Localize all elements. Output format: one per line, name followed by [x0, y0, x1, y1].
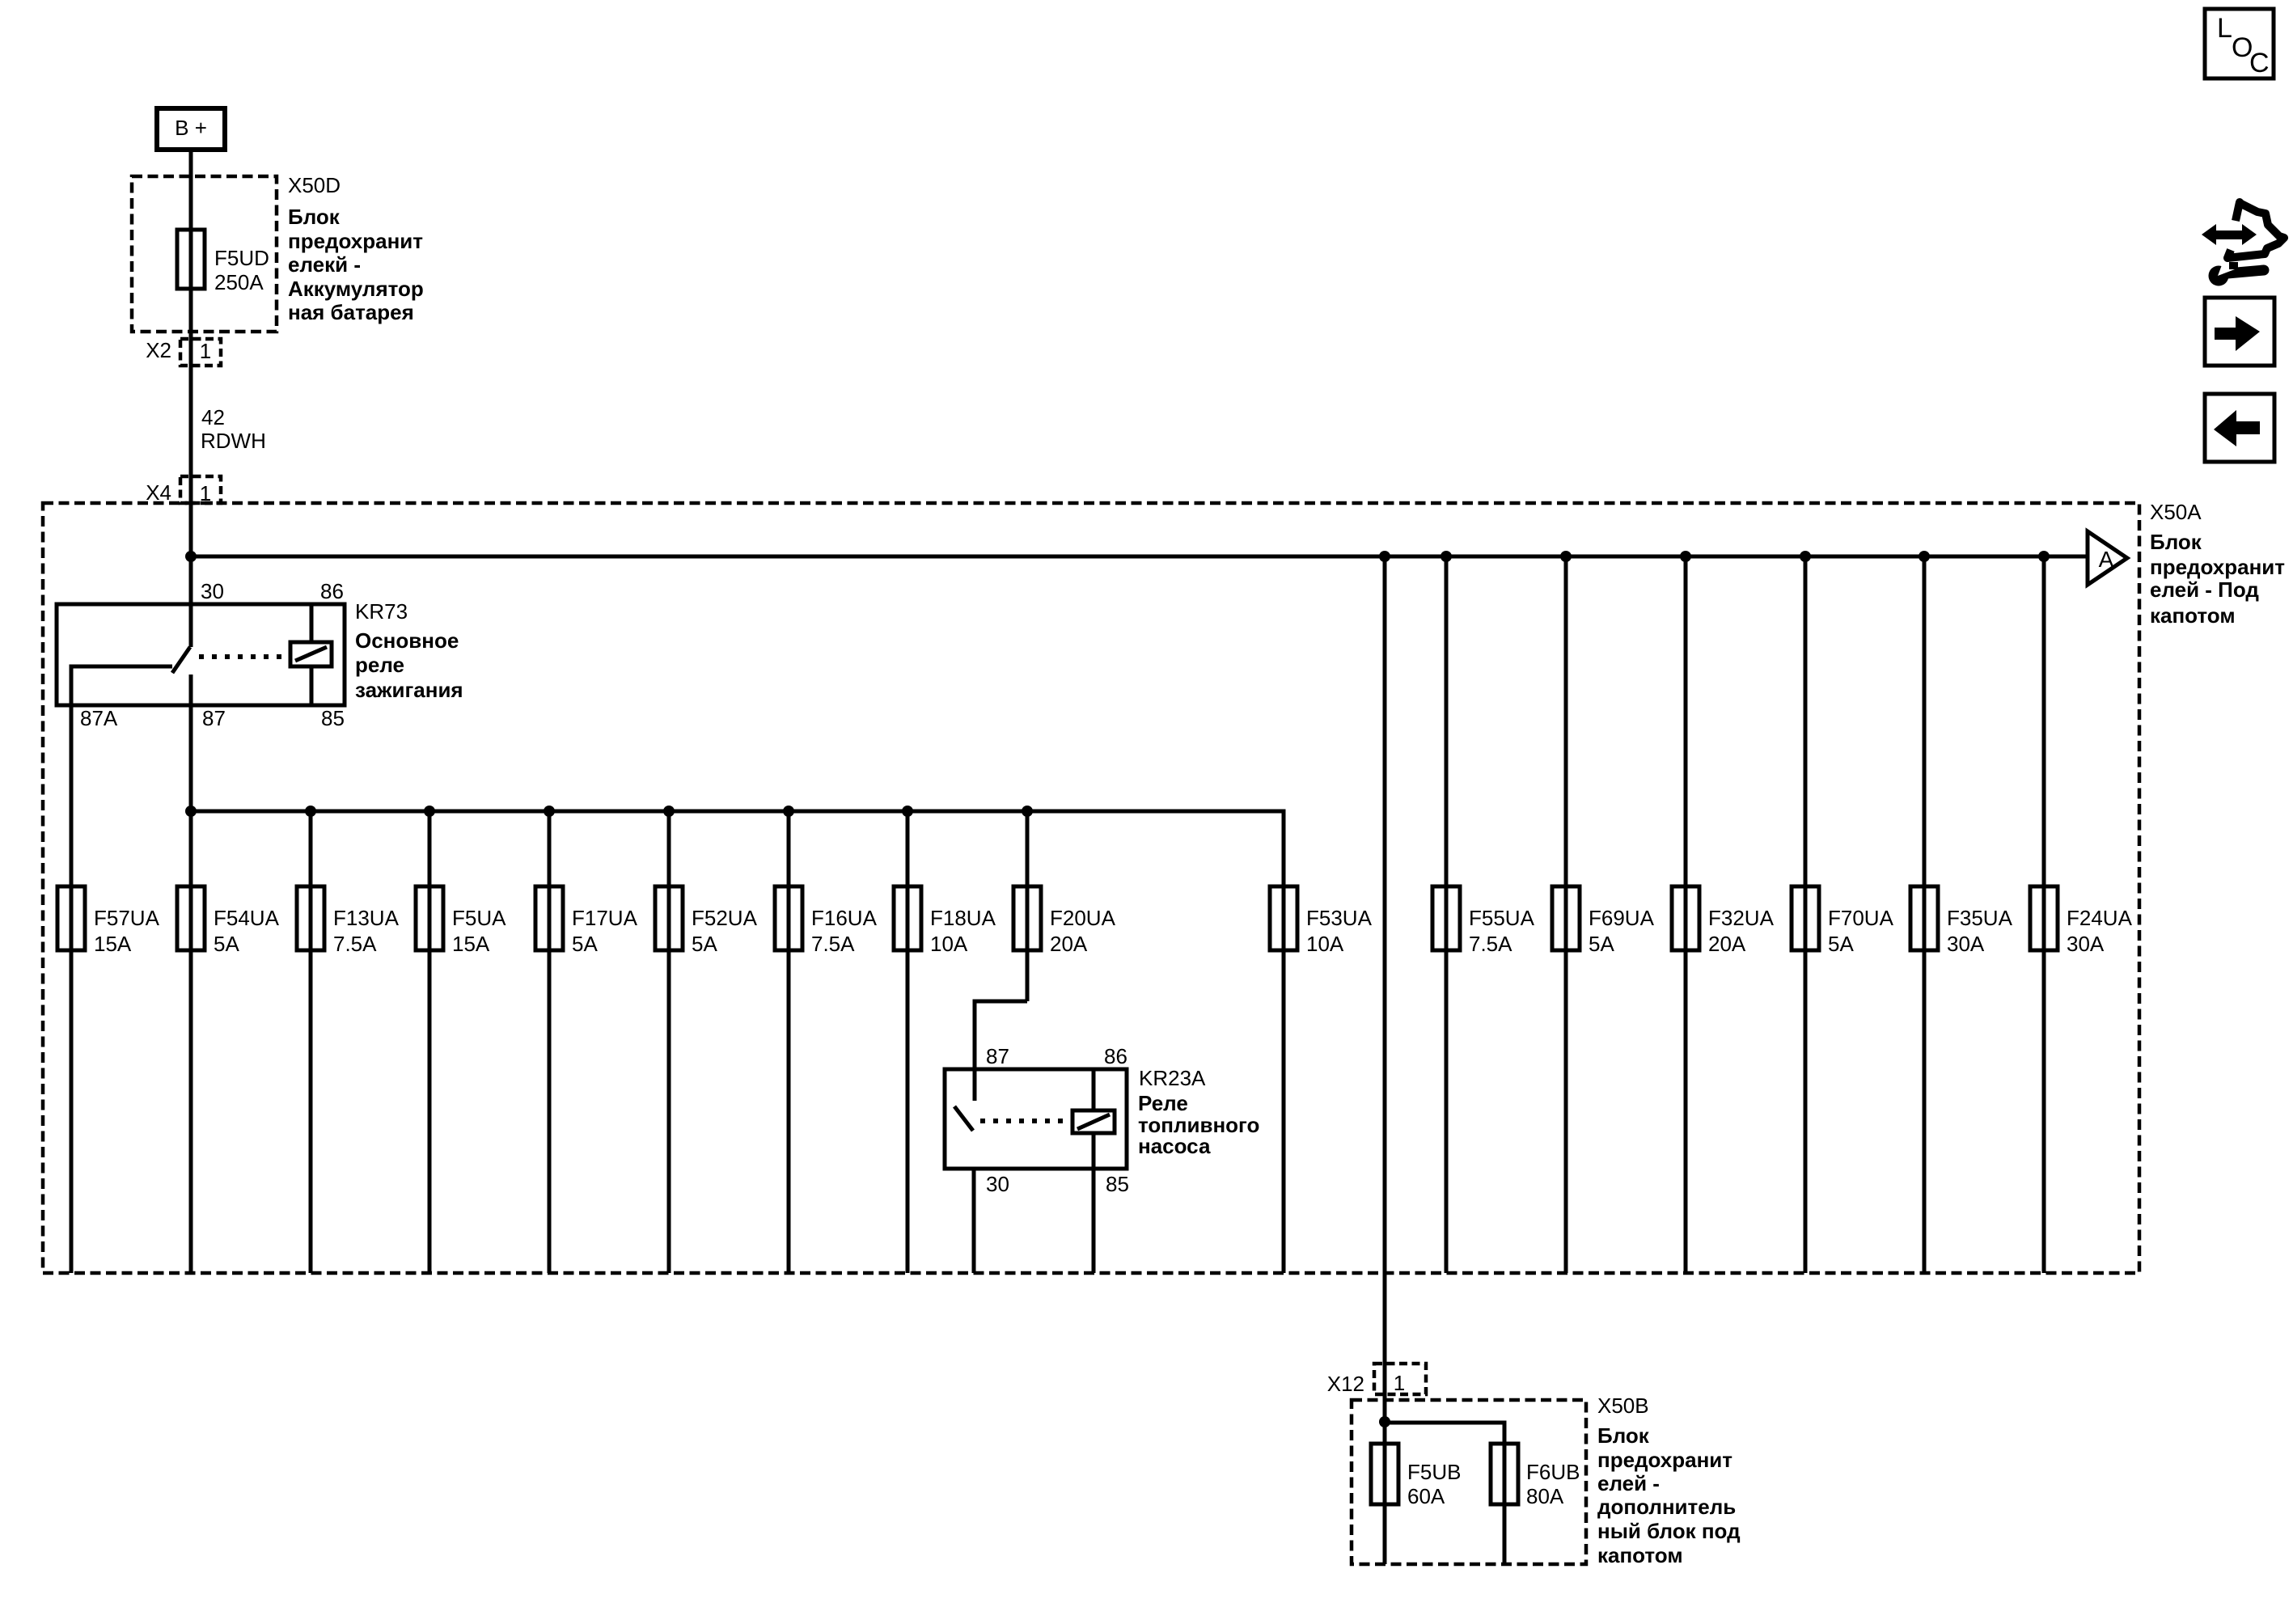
- relay KR73 pin labels bottom: [80, 706, 345, 730]
- svg-text:86: 86: [320, 579, 344, 603]
- svg-text:7.5A: 7.5A: [811, 932, 855, 956]
- svg-text:5A: 5A: [1828, 932, 1854, 956]
- svg-text:42: 42: [201, 405, 225, 429]
- svg-text:30: 30: [986, 1172, 1009, 1196]
- fuse F57UA 15A: [57, 886, 160, 956]
- label X50A description: [2150, 530, 2285, 628]
- node lower bus x=236: [185, 806, 197, 817]
- node main bus x=2232: [1800, 551, 1811, 562]
- svg-text:F32UA: F32UA: [1708, 906, 1775, 930]
- svg-text:B +: B +: [175, 116, 207, 140]
- svg-text:86: 86: [1104, 1044, 1127, 1068]
- svg-text:C: C: [2249, 48, 2270, 78]
- svg-text:ная батарея: ная батарея: [288, 300, 414, 324]
- svg-text:F55UA: F55UA: [1469, 906, 1535, 930]
- svg-text:10A: 10A: [930, 932, 968, 956]
- svg-text:F5UB: F5UB: [1407, 1460, 1461, 1484]
- node lower bus x=679: [544, 806, 555, 817]
- fuse F5UD 250A: [177, 230, 269, 294]
- svg-text:5A: 5A: [692, 932, 717, 956]
- node main bus X12 drop: [1379, 551, 1390, 562]
- nav arrow box back: [2205, 394, 2274, 462]
- svg-text:30A: 30A: [1947, 932, 1985, 956]
- svg-text:реле: реле: [355, 653, 404, 677]
- relay KR23A coil: [1072, 1110, 1115, 1133]
- fuse F69UA 5A: [1552, 556, 1655, 1273]
- relay KR73 87A wire: [71, 666, 172, 1273]
- svg-text:87A: 87A: [80, 706, 118, 730]
- fuse F52UA 5A: [655, 811, 758, 1273]
- svg-text:1: 1: [200, 339, 211, 363]
- fuse F32UA 20A: [1672, 556, 1775, 1273]
- node lower bus x=975: [783, 806, 794, 817]
- node lower bus x=1122: [902, 806, 913, 817]
- wire B+ to relay pin 30: [189, 150, 193, 647]
- fuse F5UA 15A: [416, 811, 506, 1273]
- fuse F55UA 7.5A: [1432, 556, 1535, 1273]
- wire main bus B+: [191, 555, 2088, 559]
- label X50B description: [1597, 1423, 1741, 1567]
- svg-text:F6UB: F6UB: [1526, 1460, 1580, 1484]
- svg-text:дополнитель: дополнитель: [1597, 1495, 1736, 1519]
- relay KR73 pin labels top: [201, 579, 344, 603]
- svg-text:10A: 10A: [1306, 932, 1344, 956]
- svg-text:F5UA: F5UA: [452, 906, 506, 930]
- wire main bus to X12: [1383, 556, 1387, 1564]
- relay KR23A pin 30 wire: [972, 1169, 976, 1273]
- svg-text:80A: 80A: [1526, 1484, 1564, 1508]
- svg-text:60A: 60A: [1407, 1484, 1445, 1508]
- svg-text:F18UA: F18UA: [930, 906, 996, 930]
- fuse F35UA 30A: [1910, 556, 2013, 1273]
- wire lower bus from pin 87: [191, 811, 1284, 1273]
- svg-text:X4: X4: [146, 480, 171, 505]
- connector X12 pin 1: [1327, 1364, 1426, 1396]
- node main bus x=1788: [1441, 551, 1452, 562]
- svg-text:20A: 20A: [1050, 932, 1088, 956]
- svg-text:A: A: [2099, 547, 2114, 572]
- fuse F54UA 5A: [177, 811, 280, 1273]
- svg-text:5A: 5A: [214, 932, 239, 956]
- nav arrow box forward: [2205, 298, 2274, 366]
- relay KR23A box: [945, 1069, 1127, 1169]
- service icon wrench: [2209, 262, 2265, 286]
- relay KR23A coil wires: [1092, 1069, 1096, 1273]
- relay KR73 actuation dotted line: [199, 654, 289, 659]
- node lower bus x=1270: [1022, 806, 1033, 817]
- svg-text:Блок: Блок: [1597, 1423, 1650, 1448]
- node lower bus x=531: [424, 806, 435, 817]
- relay KR73 coil: [290, 642, 332, 666]
- fuse block X50B dashed box: [1352, 1400, 1586, 1564]
- relay KR73 coil wires: [310, 604, 314, 705]
- svg-text:ный блок под: ный блок под: [1597, 1519, 1741, 1543]
- svg-text:KR23A: KR23A: [1139, 1066, 1206, 1090]
- svg-text:87: 87: [202, 706, 226, 730]
- relay KR23A pin labels top: [986, 1044, 1127, 1068]
- fuse F16UA 7.5A: [775, 811, 878, 1273]
- node main bus x=2527: [2038, 551, 2050, 562]
- relay KR23A switch arm: [954, 1106, 973, 1131]
- svg-text:F5UD: F5UD: [214, 246, 269, 270]
- label KR23A description: [1138, 1091, 1259, 1158]
- connector X4 pin 1: [146, 476, 221, 505]
- relay KR73 pin 87 wire: [189, 675, 193, 811]
- svg-text:F24UA: F24UA: [2067, 906, 2133, 930]
- svg-text:30: 30: [201, 579, 224, 603]
- connector X2 pin 1: [146, 338, 221, 366]
- fuse block X50A dashed box: [43, 503, 2139, 1273]
- svg-text:Аккумулятор: Аккумулятор: [288, 277, 424, 301]
- svg-text:насоса: насоса: [1138, 1134, 1211, 1158]
- wire F20UA to KR23A pin 87: [975, 1001, 1027, 1101]
- svg-text:X50B: X50B: [1597, 1394, 1649, 1418]
- svg-text:X2: X2: [146, 338, 171, 362]
- svg-text:1: 1: [1394, 1371, 1405, 1395]
- svg-text:F16UA: F16UA: [811, 906, 878, 930]
- svg-text:елекй -: елекй -: [288, 252, 361, 277]
- fuse F18UA 10A: [894, 811, 996, 1273]
- svg-text:F13UA: F13UA: [333, 906, 400, 930]
- svg-text:7.5A: 7.5A: [333, 932, 377, 956]
- svg-text:F52UA: F52UA: [692, 906, 758, 930]
- svg-text:елей -: елей -: [1597, 1471, 1660, 1495]
- label KR73: [355, 599, 408, 624]
- fuse F24UA 30A: [2030, 556, 2133, 1273]
- svg-text:F70UA: F70UA: [1828, 906, 1894, 930]
- svg-text:Основное: Основное: [355, 628, 459, 653]
- svg-text:F53UA: F53UA: [1306, 906, 1373, 930]
- svg-text:30A: 30A: [2067, 932, 2105, 956]
- svg-text:87: 87: [986, 1044, 1009, 1068]
- relay KR73 box: [57, 604, 345, 705]
- node main bus x=2084: [1680, 551, 1691, 562]
- svg-text:KR73: KR73: [355, 599, 408, 624]
- node lower bus x=827: [663, 806, 675, 817]
- node main bus x=2379: [1919, 551, 1930, 562]
- svg-text:предохранит: предохранит: [288, 229, 423, 253]
- svg-text:250A: 250A: [214, 270, 264, 294]
- svg-text:20A: 20A: [1708, 932, 1746, 956]
- label X50A: [2150, 500, 2202, 524]
- fuse F20UA 20A: [1013, 811, 1116, 1001]
- svg-text:85: 85: [1106, 1172, 1129, 1196]
- relay KR23A actuation dotted line: [980, 1119, 1071, 1123]
- fuse F53UA 10A: [1270, 886, 1373, 956]
- svg-text:F35UA: F35UA: [1947, 906, 2013, 930]
- node main bus x=1936: [1560, 551, 1572, 562]
- svg-text:Реле: Реле: [1138, 1091, 1188, 1115]
- svg-text:Блок: Блок: [2150, 530, 2202, 554]
- fuse block X50D dashed box: [132, 176, 277, 332]
- svg-text:F57UA: F57UA: [94, 906, 160, 930]
- wire label 42 RDWH: [201, 405, 266, 453]
- fuse F70UA 5A: [1792, 556, 1894, 1273]
- svg-text:предохранит: предохранит: [1597, 1448, 1732, 1472]
- svg-text:Блок: Блок: [288, 205, 341, 229]
- label KR73 description: [355, 628, 463, 702]
- label X50B: [1597, 1394, 1649, 1418]
- svg-text:X50D: X50D: [288, 173, 341, 197]
- svg-text:зажигания: зажигания: [355, 678, 463, 702]
- svg-text:F69UA: F69UA: [1589, 906, 1655, 930]
- node bus at relay feed: [185, 551, 197, 562]
- svg-text:15A: 15A: [94, 932, 132, 956]
- svg-text:5A: 5A: [1589, 932, 1614, 956]
- off-page arrow A: [2088, 531, 2127, 585]
- fuse F6UB 80A: [1491, 1444, 1580, 1508]
- svg-text:капотом: капотом: [2150, 603, 2236, 628]
- service icon double arrow: [2202, 224, 2257, 245]
- fuse F5UB 60A: [1371, 1444, 1461, 1508]
- svg-text:F17UA: F17UA: [572, 906, 638, 930]
- svg-text:F54UA: F54UA: [214, 906, 280, 930]
- svg-text:85: 85: [321, 706, 345, 730]
- svg-text:7.5A: 7.5A: [1469, 932, 1512, 956]
- wire X50B to F6UB: [1385, 1423, 1504, 1564]
- fuse F17UA 5A: [535, 811, 638, 1273]
- label KR23A: [1139, 1066, 1206, 1090]
- svg-text:F20UA: F20UA: [1050, 906, 1116, 930]
- relay KR73 switch arm 30-87A: [172, 647, 190, 673]
- svg-text:X50A: X50A: [2150, 500, 2202, 524]
- svg-text:елей - Под: елей - Под: [2150, 577, 2259, 602]
- service icon hose: [2227, 202, 2284, 258]
- label X50D description: [288, 205, 424, 324]
- node lower bus x=384: [305, 806, 316, 817]
- fuse F13UA 7.5A: [297, 811, 400, 1273]
- label X50D: [288, 173, 341, 197]
- terminal B+: [157, 108, 225, 150]
- svg-text:L: L: [2217, 13, 2232, 44]
- svg-text:RDWH: RDWH: [201, 429, 266, 453]
- svg-text:X12: X12: [1327, 1372, 1364, 1396]
- svg-text:15A: 15A: [452, 932, 490, 956]
- node X50B feed: [1379, 1416, 1390, 1427]
- svg-text:капотом: капотом: [1597, 1543, 1683, 1567]
- svg-text:5A: 5A: [572, 932, 598, 956]
- LOC reference box: [2205, 9, 2274, 78]
- svg-text:предохранит: предохранит: [2150, 555, 2285, 579]
- relay KR23A pin labels bottom: [986, 1172, 1129, 1196]
